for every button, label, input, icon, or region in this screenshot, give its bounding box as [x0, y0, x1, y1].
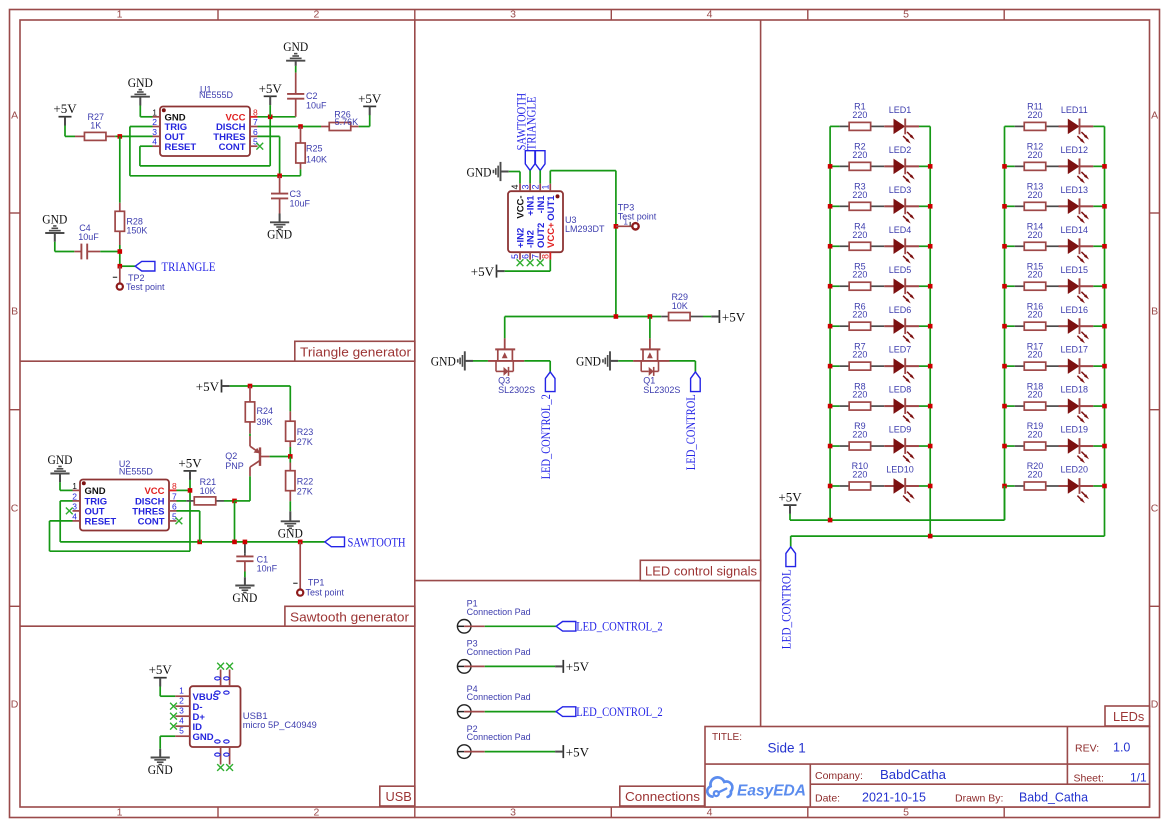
test point TP2 [119, 266, 121, 283]
svg-text:GND: GND [467, 164, 492, 179]
svg-text:1: 1 [117, 807, 123, 819]
svg-text:3: 3 [179, 705, 184, 715]
USB shell pins [220, 670, 222, 687]
svg-text:4: 4 [179, 715, 184, 725]
svg-text:220: 220 [852, 110, 867, 120]
resistor R2 220 / LED2 [830, 165, 840, 167]
svg-text:SL2302S: SL2302S [498, 385, 535, 395]
resistor R27 1K [75, 135, 84, 137]
svg-text:VCC: VCC [144, 486, 164, 497]
node junction R28/C4 [118, 249, 123, 254]
no-connect X USB shell top [217, 663, 224, 670]
svg-text:LED_CONTROL: LED_CONTROL [780, 569, 794, 649]
svg-text:5: 5 [179, 725, 184, 735]
svg-text:220: 220 [1027, 469, 1042, 479]
svg-text:LED20: LED20 [1061, 465, 1089, 475]
svg-text:10uF: 10uF [290, 198, 311, 208]
svg-text:CONT: CONT [219, 142, 246, 153]
svg-text:GND: GND [278, 526, 303, 541]
net flag SAWTOOTH [325, 537, 345, 547]
section label USB [380, 786, 415, 806]
resistor R17 220 / LED17 [1005, 365, 1015, 367]
svg-text:5: 5 [172, 511, 177, 521]
svg-text:220: 220 [1027, 230, 1042, 240]
svg-text:Connection Pad: Connection Pad [467, 732, 531, 742]
svg-text:LED5: LED5 [889, 265, 912, 275]
ground flag GND (C4) [54, 233, 56, 242]
svg-text:10K: 10K [200, 486, 216, 496]
svg-text:LM293DT: LM293DT [565, 224, 605, 234]
svg-text:+5V: +5V [566, 744, 590, 759]
svg-text:220: 220 [852, 230, 867, 240]
no-connect X USB D- [170, 703, 177, 710]
svg-text:GND: GND [267, 227, 292, 242]
resistor R5 220 / LED5 [830, 285, 840, 287]
power flag +5V (R29) [703, 316, 711, 318]
capacitor C3 10uF [279, 176, 281, 194]
svg-text:LED3: LED3 [889, 185, 912, 195]
wire LED column2 right rail [1104, 126, 1106, 536]
connector USB1 micro 5P_C40949 [190, 686, 241, 747]
svg-text:220: 220 [1027, 270, 1042, 280]
svg-text:RESET: RESET [85, 517, 117, 528]
svg-text:4: 4 [152, 137, 157, 147]
svg-text:+5V: +5V [196, 379, 220, 394]
svg-text:Q1: Q1 [643, 375, 655, 385]
node junction TRIG/THRES/C3 [277, 174, 282, 179]
svg-text:220: 220 [1027, 350, 1042, 360]
svg-text:220: 220 [1027, 150, 1042, 160]
wire sawtooth bus [60, 541, 325, 543]
svg-text:LED_CONTROL_2: LED_CONTROL_2 [576, 704, 663, 719]
wire +5V vertical rail (U2) [189, 479, 191, 551]
ground flag GND (U2 pin1) [59, 474, 61, 483]
node junction DISCH/R26/R25 [298, 124, 303, 129]
ground flag GND (USB) [159, 749, 161, 758]
svg-text:220: 220 [852, 469, 867, 479]
svg-text:LED18: LED18 [1061, 385, 1089, 395]
svg-text:PNP: PNP [225, 461, 244, 471]
svg-text:220: 220 [1027, 110, 1042, 120]
svg-text:7: 7 [172, 491, 177, 501]
resistor R25 140K [300, 127, 302, 144]
node junction TRIANGLE/TP2 [118, 264, 123, 269]
svg-text:Test point: Test point [306, 587, 345, 597]
svg-text:220: 220 [1027, 190, 1042, 200]
svg-text:GND: GND [128, 75, 153, 90]
svg-text:LED16: LED16 [1061, 305, 1089, 315]
svg-text:7: 7 [530, 254, 540, 259]
wire GND to U1 pin1 [139, 106, 141, 117]
wire U2 TRIG to output bus [60, 500, 72, 502]
EasyEDA logo [707, 777, 732, 797]
svg-text:C: C [1151, 502, 1159, 514]
svg-text:B: B [1151, 306, 1158, 318]
wire GND to U3 VCC- [509, 171, 520, 173]
wire gate bus [505, 316, 662, 318]
svg-text:1: 1 [624, 218, 629, 227]
resistor R6 220 / LED6 [830, 325, 840, 327]
svg-text:10uF: 10uF [78, 232, 99, 242]
svg-text:5.76K: 5.76K [335, 117, 359, 127]
node junction bus/THRES [197, 540, 202, 545]
svg-text:LED11: LED11 [1061, 105, 1088, 115]
svg-text:LED17: LED17 [1061, 345, 1089, 355]
svg-text:3: 3 [510, 807, 516, 819]
net flag LED_CONTROL_2 (P4) [556, 707, 576, 717]
svg-text:+5V: +5V [471, 264, 495, 279]
net flag SAWTOOTH (U3 +IN1) [525, 151, 535, 171]
resistor R11 220 / LED11 [1005, 125, 1015, 127]
wire +5V to R24/R23 [230, 385, 291, 387]
node junction U2 VCC [188, 488, 193, 493]
svg-text:Side 1: Side 1 [768, 741, 806, 756]
svg-text:D: D [1151, 699, 1159, 711]
svg-text:8: 8 [253, 107, 258, 117]
svg-text:220: 220 [1027, 430, 1042, 440]
wire U1 TRIG loop to THRES/C3 node [130, 126, 153, 128]
resistor R3 220 / LED3 [830, 205, 840, 207]
resistor R12 220 / LED12 [1005, 165, 1015, 167]
wire LED column1 left rail [829, 126, 831, 520]
ground flag GND (Q1) [610, 360, 618, 362]
junction dots LED rails [828, 164, 833, 169]
svg-text:USB: USB [386, 789, 412, 804]
net flag TRIANGLE (U3 -IN1) [535, 151, 545, 171]
svg-text:TRIANGLE: TRIANGLE [525, 96, 539, 150]
resistor R20 220 / LED20 [1005, 485, 1015, 487]
no-connect X U2 OUT [66, 508, 73, 515]
svg-text:220: 220 [852, 270, 867, 280]
svg-text:10uF: 10uF [306, 100, 327, 110]
U2 VCC pin stub (red) [169, 489, 177, 491]
svg-text:+5V: +5V [149, 662, 173, 677]
svg-text:LEDs: LEDs [1113, 709, 1144, 724]
ground flag GND (U3) [501, 171, 509, 173]
wire R21 node down to bus [234, 501, 236, 542]
svg-text:4: 4 [72, 511, 77, 521]
wire P4 to LED_CONTROL_2 [485, 711, 556, 713]
svg-text:LED9: LED9 [889, 425, 912, 435]
ground flag GND (U1 pin1) [139, 97, 141, 106]
svg-text:1: 1 [72, 481, 77, 491]
svg-text:27K: 27K [297, 487, 313, 497]
svg-text:5: 5 [253, 137, 258, 147]
svg-text:GND: GND [576, 354, 601, 369]
node junction Q2 base/R23/R22 [288, 454, 293, 459]
svg-text:220: 220 [852, 390, 867, 400]
svg-text:220: 220 [852, 190, 867, 200]
transistor Q3 SL2302S [504, 317, 506, 339]
resistor R16 220 / LED16 [1005, 325, 1015, 327]
resistor R18 220 / LED18 [1005, 405, 1015, 407]
svg-text:Connections: Connections [625, 789, 700, 804]
svg-text:SAWTOOTH: SAWTOOTH [348, 534, 406, 549]
test point TP1 [299, 542, 301, 590]
svg-text:+5V: +5V [178, 455, 202, 470]
resistor R1 220 / LED1 [830, 125, 840, 127]
wire LED_CONTROL bus [791, 535, 1105, 537]
svg-text:150K: 150K [126, 226, 147, 236]
svg-text:220: 220 [852, 310, 867, 320]
svg-text:Company:: Company: [815, 770, 863, 782]
svg-text:1.0: 1.0 [1113, 741, 1130, 755]
svg-text:2: 2 [313, 9, 319, 21]
svg-text:R24: R24 [257, 406, 274, 416]
svg-text:R23: R23 [297, 427, 314, 437]
node junction bus/R21 [232, 540, 237, 545]
node junction R24 top [248, 384, 253, 389]
svg-text:BabdCatha: BabdCatha [880, 768, 946, 782]
svg-text:GND: GND [193, 732, 214, 743]
no-connect X U3 OUT2 [537, 259, 544, 266]
svg-text:8: 8 [541, 254, 551, 259]
timer U2 NE555D [80, 480, 169, 531]
svg-text:+5V: +5V [358, 91, 382, 106]
svg-text:LED_CONTROL_2: LED_CONTROL_2 [576, 619, 663, 634]
svg-text:LED7: LED7 [889, 345, 912, 355]
node junction TP1 [298, 540, 303, 545]
section label Connections [620, 786, 705, 806]
wire U1 RESET loop to VCC [140, 145, 153, 147]
svg-text:CONT: CONT [138, 517, 165, 528]
net flag LED_CONTROL (LED section) [786, 547, 796, 567]
svg-text:4: 4 [707, 9, 713, 21]
svg-text:Q2: Q2 [225, 451, 237, 461]
svg-text:GND: GND [85, 486, 106, 497]
svg-text:GND: GND [232, 590, 257, 605]
svg-text:2: 2 [179, 695, 184, 705]
svg-text:1: 1 [152, 107, 157, 117]
svg-text:4: 4 [707, 807, 713, 819]
svg-text:LED14: LED14 [1061, 225, 1089, 235]
svg-text:220: 220 [852, 150, 867, 160]
svg-text:220: 220 [852, 430, 867, 440]
wire P1 to LED_CONTROL_2 [485, 625, 556, 627]
section label LEDs [1105, 706, 1150, 726]
svg-text:27K: 27K [297, 437, 313, 447]
svg-text:5: 5 [510, 254, 520, 259]
svg-text:OUT1: OUT1 [546, 195, 557, 221]
node junction C1/bus [243, 540, 248, 545]
svg-text:2021-10-15: 2021-10-15 [862, 791, 926, 805]
node junction control bus / col1 rail [928, 534, 933, 539]
svg-text:5: 5 [903, 807, 909, 819]
resistor R23 27K [289, 386, 291, 411]
ground flag GND (C2 top) [295, 61, 297, 66]
title block frame [705, 727, 1150, 808]
svg-text:Babd_Catha: Babd_Catha [1019, 791, 1088, 805]
svg-text:2: 2 [72, 491, 77, 501]
no-connect X USB D+ [170, 713, 177, 720]
resistor R4 220 / LED4 [830, 245, 840, 247]
op-amp timer U1 NE555D [160, 107, 250, 157]
svg-text:2: 2 [530, 184, 540, 189]
resistor R21 10K [177, 500, 187, 502]
svg-text:LED10: LED10 [886, 465, 914, 475]
resistor R26 5.76K [321, 126, 329, 128]
svg-text:D: D [11, 699, 19, 711]
svg-text:LED_CONTROL: LED_CONTROL [684, 394, 698, 470]
capacitor C2 10uF [295, 66, 297, 73]
wire LED column1 right rail [929, 126, 931, 536]
svg-text:micro 5P_C40949: micro 5P_C40949 [243, 720, 317, 731]
svg-text:Test point: Test point [126, 282, 165, 292]
svg-text:Date:: Date: [815, 793, 840, 805]
svg-text:GND: GND [48, 452, 73, 467]
svg-text:R25: R25 [306, 144, 323, 154]
wire LED column2 left rail [1004, 126, 1006, 520]
svg-text:+5V: +5V [259, 81, 283, 96]
svg-text:LED_CONTROL_2: LED_CONTROL_2 [539, 394, 553, 479]
svg-text:LED19: LED19 [1061, 425, 1089, 435]
svg-text:TITLE:: TITLE: [712, 732, 742, 743]
svg-text:1: 1 [541, 184, 551, 189]
svg-text:Sawtooth generator: Sawtooth generator [290, 609, 410, 624]
svg-text:NE555D: NE555D [119, 467, 154, 477]
svg-text:10K: 10K [672, 301, 688, 311]
ground flag GND (C3) [279, 214, 281, 223]
capacitor C1 10nF [244, 542, 246, 554]
svg-text:VCC+: VCC+ [546, 222, 557, 248]
wire U1 VCC to C2 [258, 116, 296, 118]
resistor R19 220 / LED19 [1005, 445, 1015, 447]
transistor Q2 PNP [259, 447, 261, 466]
svg-text:+5V: +5V [722, 309, 746, 324]
wire THRES down to node [258, 135, 280, 137]
svg-text:A: A [1151, 110, 1158, 122]
svg-text:+5V: +5V [566, 659, 590, 674]
svg-text:2: 2 [152, 117, 157, 127]
svg-text:RESET: RESET [165, 142, 197, 153]
svg-text:LED2: LED2 [889, 145, 912, 155]
svg-text:2: 2 [313, 807, 319, 819]
wire U2 THRES down to bus [177, 510, 200, 512]
svg-text:5: 5 [903, 9, 909, 21]
net flag LED_CONTROL_2 (P1) [556, 622, 576, 632]
ground flag GND (R22) [289, 501, 291, 511]
net flag TRIANGLE [120, 265, 135, 267]
svg-text:8: 8 [172, 481, 177, 491]
test point TP3 [616, 225, 632, 227]
connection pad P4 [457, 705, 471, 719]
svg-text:6: 6 [253, 127, 258, 137]
resistor R8 220 / LED8 [830, 405, 840, 407]
resistor R29 10K [661, 316, 668, 318]
svg-text:Connection Pad: Connection Pad [467, 607, 531, 617]
section label LED control signals [640, 560, 760, 580]
svg-text:REV:: REV: [1075, 743, 1099, 755]
connection pad P1 [457, 620, 471, 634]
svg-text:LED1: LED1 [889, 105, 912, 115]
svg-text:LED12: LED12 [1061, 145, 1089, 155]
svg-text:LED control signals: LED control signals [645, 564, 757, 579]
svg-text:3: 3 [72, 501, 77, 511]
resistor R14 220 / LED14 [1005, 245, 1015, 247]
wire USB GND [160, 735, 175, 737]
section label Triangle generator [295, 341, 415, 361]
svg-text:GND: GND [431, 354, 456, 369]
svg-text:A: A [11, 110, 18, 122]
wire P2 to +5V [485, 751, 555, 753]
svg-text:Connection Pad: Connection Pad [467, 692, 531, 702]
ground flag GND (C1) [244, 577, 246, 585]
section divider lines [414, 20, 416, 807]
ground flag GND (Q3) [465, 360, 473, 362]
svg-text:1/1: 1/1 [1130, 771, 1147, 785]
U3 VCC+ pin stub (red) [549, 252, 551, 260]
svg-text:220: 220 [852, 350, 867, 360]
svg-text:LED4: LED4 [889, 225, 912, 235]
node junction bus/Q1 gate [648, 314, 653, 319]
wire +5V to R27 [64, 126, 66, 137]
connection pad P3 [457, 660, 471, 674]
svg-text:NE555D: NE555D [199, 90, 234, 100]
svg-text:6: 6 [172, 501, 177, 511]
wire R27 to U1 OUT [115, 135, 152, 137]
svg-text:220: 220 [1027, 310, 1042, 320]
svg-text:LED8: LED8 [889, 385, 912, 395]
wire Q1 drain to flag [670, 360, 696, 362]
svg-text:39K: 39K [257, 417, 273, 427]
wire +5V to VBUS [159, 687, 161, 697]
transistor Q1 SL2302S [649, 317, 651, 339]
svg-text:LED6: LED6 [889, 305, 912, 315]
resistor R13 220 / LED13 [1005, 205, 1015, 207]
svg-text:GND: GND [283, 39, 308, 54]
node junction TP3 [614, 224, 619, 229]
svg-text:1K: 1K [90, 120, 101, 130]
svg-text:3: 3 [152, 127, 157, 137]
wire Q3 drain to flag [524, 360, 550, 362]
node junction bus/OUT1 [614, 314, 619, 319]
svg-text:4: 4 [510, 184, 520, 189]
svg-text:3: 3 [520, 184, 530, 189]
svg-text:TP1: TP1 [308, 577, 325, 587]
wire U2 VCC [177, 489, 191, 491]
svg-text:220: 220 [1027, 390, 1042, 400]
svg-text:3: 3 [510, 9, 516, 21]
wire U2 RESET to +5V rail [50, 520, 73, 522]
section label Sawtooth generator [285, 606, 415, 626]
svg-text:1: 1 [179, 685, 184, 695]
svg-text:10nF: 10nF [257, 564, 278, 574]
svg-text:Connection Pad: Connection Pad [467, 647, 531, 657]
svg-text:LED13: LED13 [1061, 185, 1089, 195]
wire U1 DISCH to R26/R25 [258, 126, 322, 128]
no-connect X U3 +IN2 [517, 259, 524, 266]
svg-text:LED15: LED15 [1061, 265, 1089, 275]
svg-text:GND: GND [148, 762, 173, 777]
svg-text:TRIANGLE: TRIANGLE [162, 259, 216, 274]
node junction R21/Q2 collector [232, 499, 237, 504]
svg-text:Drawn By:: Drawn By: [955, 793, 1003, 805]
svg-text:+5V: +5V [53, 101, 77, 116]
no-connect X USB shell bottom [217, 764, 224, 771]
wire Q2 collector [235, 500, 251, 502]
net flag LED_CONTROL_2 (Q3) [545, 372, 555, 392]
svg-text:C: C [11, 502, 19, 514]
no-connect X USB ID [170, 723, 177, 730]
svg-text:GND: GND [42, 212, 67, 227]
node junction R27/OUT/R28 [118, 134, 123, 139]
svg-text:1: 1 [117, 9, 123, 21]
resistor R7 220 / LED7 [830, 365, 840, 367]
resistor R15 220 / LED15 [1005, 285, 1015, 287]
wire U3 OUT1 [549, 171, 551, 184]
comparator U3 LM293DT [508, 191, 563, 252]
svg-text:Sheet:: Sheet: [1074, 773, 1104, 785]
